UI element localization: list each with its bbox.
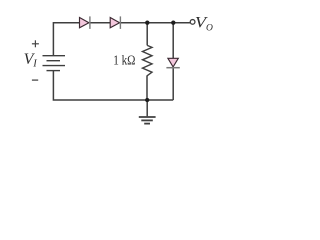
svg-text:I: I (32, 59, 37, 70)
svg-text:O: O (206, 24, 213, 34)
svg-text:1 kΩ: 1 kΩ (113, 52, 135, 67)
